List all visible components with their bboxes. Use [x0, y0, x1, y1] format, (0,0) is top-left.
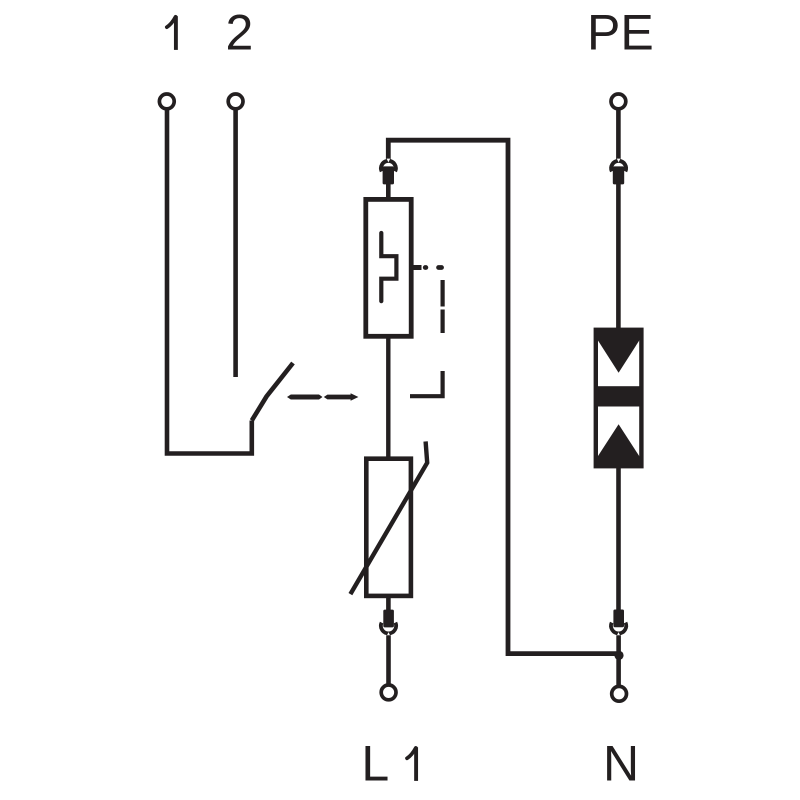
- dashed linkage: dot 2: [439, 265, 442, 270]
- svg-text:PE: PE: [587, 5, 654, 61]
- wire: terminal 1 down, right along bottom, up to switch hinge: [167, 110, 252, 454]
- terminal L1 circle: [381, 685, 396, 700]
- spark gap middle band: [596, 386, 641, 406]
- wire: varistor down to L1 disconnect indicator: [386, 596, 391, 611]
- svg-text:2: 2: [225, 5, 253, 61]
- wire: disconnector box down to varistor: [386, 336, 390, 458]
- wire: spark gap down to N disconnect indicator: [616, 466, 621, 611]
- junction dot at node N: [614, 651, 623, 660]
- dashed linkage: horizontal dash 1 near switch (pointed ends): [287, 395, 323, 400]
- surge breakdown step symbol inside box: [381, 233, 396, 301]
- label 1: [174, 16, 178, 50]
- wire: PE indicator down to gas discharge tube: [616, 184, 621, 330]
- thermal disconnect indicator (plug over arc) on L1 branch bottom: [383, 610, 394, 628]
- wire: top of center branch, over to right bus, down and to node N junction: [388, 140, 619, 653]
- terminal N circle: [612, 686, 627, 701]
- dashed linkage: elbow dash down-left: [410, 371, 443, 396]
- wire: PE terminal down to disconnect indicator: [616, 109, 621, 160]
- dashed linkage: dot 1: [423, 265, 428, 270]
- disconnector / arrester box U1: [366, 199, 411, 336]
- wire: N indicator through junction down to N terminal: [616, 635, 621, 687]
- spark gap bottom electrode (filled triangle pointing up): [596, 424, 641, 466]
- thermal disconnect indicator (arc over plug) on L1 branch top: [381, 161, 396, 172]
- switch S1 blade (open disconnect contact): [252, 363, 293, 421]
- wire: terminal 2 down to switch fixed contact: [233, 110, 238, 377]
- terminal PE circle: [611, 94, 626, 109]
- varistor diagonal with tail: [350, 441, 427, 594]
- svg-text:L: L: [361, 736, 389, 792]
- wire: indicator down to disconnector box: [386, 184, 391, 200]
- gas discharge tube / spark gap F2 body: [596, 330, 642, 466]
- terminal 1 circle: [159, 94, 174, 109]
- thermal disconnect indicator (arc over plug) on PE branch: [611, 161, 626, 172]
- wire: indicator down to L1 terminal: [386, 635, 391, 685]
- dashed linkage: vertical dash 1: [441, 280, 445, 307]
- varistor RV1 body: [366, 459, 411, 596]
- svg-text:N: N: [603, 736, 639, 792]
- dashed linkage: stub from box right edge: [414, 265, 422, 270]
- dashed linkage: horizontal dash 2 with arrow tip: [324, 393, 359, 400]
- spark gap top electrode (filled triangle pointing down): [596, 330, 641, 373]
- dashed linkage: vertical dash 2: [441, 310, 445, 334]
- terminal 2 circle: [228, 94, 243, 109]
- thermal disconnect indicator (plug over arc) on N branch: [613, 610, 624, 628]
